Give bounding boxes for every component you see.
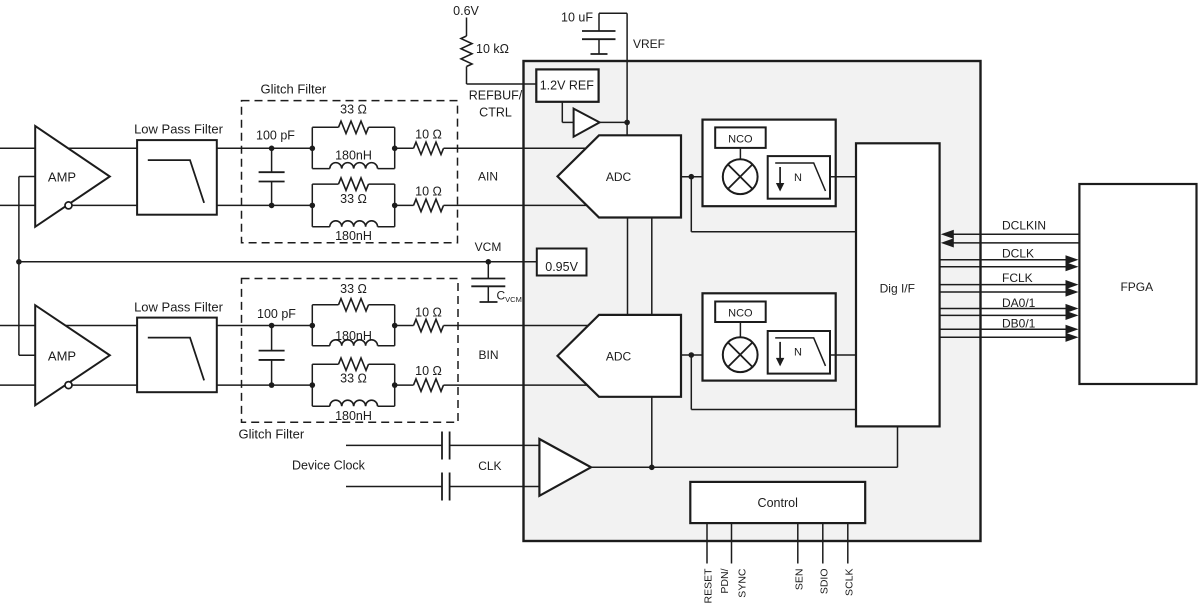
svg-text:33 Ω: 33 Ω [340,372,367,386]
resistor A-bottom 10ohm [414,199,444,211]
wire DDC B output [830,354,856,356]
low pass filter 2 box [137,318,217,393]
wire device clock bottom [346,486,442,488]
wire A-top RL loop left leg [311,127,313,168]
svg-text:DCLKIN: DCLKIN [1002,219,1046,233]
node A-bottom right [392,203,398,209]
svg-text:REFBUF/: REFBUF/ [469,89,523,103]
svg-text:180nH: 180nH [335,329,372,343]
wire RESET pin [706,523,708,563]
capacitor 100pF A [271,148,273,172]
capacitor clock coupling top [441,432,443,460]
wire 10uF to VREF line [599,12,627,14]
op-amp AMP1 [35,126,110,227]
decimation filter A down-arrow [779,167,781,184]
svg-text:Low Pass Filter: Low Pass Filter [134,122,224,137]
resistor B-top 33ohm [339,299,369,311]
inductor B-bottom 180nH [330,400,378,406]
wire DA0/1 pair [940,308,1067,310]
wire SDIO pin [822,523,824,563]
resistor B-top 10ohm [414,319,444,331]
wire B-bottom RL top leads [312,363,338,365]
resistor A-top 33ohm [339,121,369,133]
NCO A box [715,127,766,147]
ADC chip body (shaded) [524,61,981,541]
node B cap bottom [269,382,275,388]
svg-text:10 Ω: 10 Ω [415,184,442,198]
node VCM cap tap [486,259,492,265]
low pass filter 1 box [137,140,217,215]
wire clock below ADC2 [651,397,653,468]
wire B-bottom RL loop right leg [394,364,396,406]
ground 10uF [591,53,608,55]
wire SEN pin [797,523,799,563]
svg-text:BIN: BIN [478,348,498,362]
wire buffer output [600,121,628,123]
node B-top right [392,323,398,329]
svg-text:Dig I/F: Dig I/F [880,282,915,296]
Dig I/F box [856,143,940,426]
wire resistor to REFBUF pin [466,67,468,85]
capacitor 10uF [598,13,600,31]
svg-text:180nH: 180nH [335,149,372,163]
resistor A-bottom 33ohm [339,178,369,190]
wire PDN/SYNC pin [731,523,733,563]
svg-text:RESET: RESET [703,568,715,604]
svg-text:NCO: NCO [728,133,753,145]
wire 1.2V REF to buffer [561,102,563,123]
svg-text:Low Pass Filter: Low Pass Filter [134,300,224,315]
svg-text:PDN/: PDN/ [719,568,731,593]
capacitor clock coupling bottom [441,473,443,501]
svg-text:FPGA: FPGA [1120,280,1153,294]
svg-text:Device Clock: Device Clock [292,459,366,473]
svg-text:FCLK: FCLK [1002,271,1033,285]
svg-text:CLK: CLK [478,459,501,473]
op-amp reference buffer [574,109,600,137]
svg-text:33 Ω: 33 Ω [340,192,367,206]
wire AIN- rail [0,204,312,206]
wire DDC A bypass [690,177,692,232]
svg-text:Glitch Filter: Glitch Filter [261,82,327,97]
svg-text:33 Ω: 33 Ω [340,103,367,117]
svg-text:Control: Control [758,496,798,510]
Control box [690,482,865,523]
svg-text:N: N [794,172,802,184]
inductor A-top 180nH [330,163,378,169]
0.95V reference box [537,249,587,276]
wire SCLK pin [847,523,849,563]
decimation filter B box [768,331,830,374]
svg-text:100 pF: 100 pF [256,129,295,143]
decimation filter A slope [775,163,825,191]
svg-text:0.6V: 0.6V [453,4,479,18]
node VCM tee [16,259,22,265]
resistor A-top 10ohm [414,142,444,154]
wire VREF vertical [626,13,628,135]
glitch filter A dashed box [242,101,458,243]
wire NCO B to mixer [739,322,741,337]
wire AIN+ rail [0,147,312,149]
svg-text:180nH: 180nH [335,229,372,243]
svg-text:10 uF: 10 uF [561,11,593,25]
decimation filter B slope [775,338,825,366]
wire A-bottom RL loop right leg [394,184,396,227]
node A cap bottom [269,203,275,209]
1.2V REF box [536,69,598,101]
wire B-top RL loop left leg [311,305,313,346]
node A-bottom left [310,203,316,209]
svg-text:VREF: VREF [633,37,665,51]
node A-top right [392,146,398,152]
node ADC2 output junction [689,352,695,358]
svg-text:AMP: AMP [48,348,76,363]
low pass filter 2 response curve [148,338,204,381]
svg-text:AMP: AMP [48,170,76,185]
node clock junction [649,465,655,471]
svg-text:SYNC: SYNC [736,568,748,598]
AMP1 inverting output bubble [65,202,72,209]
svg-text:DA0/1: DA0/1 [1002,296,1036,310]
capacitor CVCM [487,262,489,279]
svg-text:ADC: ADC [606,170,632,184]
ADC U1 (channel A) [558,135,682,217]
wire BIN- rail [0,384,312,386]
resistor B-bottom 33ohm [339,358,369,370]
node A cap top [269,146,275,152]
wire clock between ADCs [651,218,653,315]
low pass filter 1 response curve [148,160,204,203]
svg-text:180nH: 180nH [335,409,372,423]
resistor B-bottom 10ohm [414,379,444,391]
AMP2 inverting output bubble [65,382,72,389]
node A-top left [310,146,316,152]
op-amp AMP2 [35,305,110,405]
ground CVCM [480,301,498,303]
wire FCLK pair [940,284,1067,286]
NCO B box [715,302,766,323]
svg-text:VCM: VCM [475,240,502,254]
svg-text:CTRL: CTRL [479,106,512,120]
wire 0.6V to resistor [466,18,468,37]
DDC A outer box [703,120,836,207]
wire ADC2 output [681,354,703,356]
node ADC1 output junction [689,174,695,180]
node VREF junction [624,120,630,126]
svg-text:10 Ω: 10 Ω [415,364,442,378]
node B-top left [310,323,316,329]
wire DDC A output [830,176,856,178]
node B-bottom left [310,382,316,388]
glitch filter B dashed box [242,279,459,423]
wire device clock top [346,444,442,446]
svg-text:NCO: NCO [728,307,753,319]
wire A-top RL loop right leg [394,127,396,168]
mixer A (multiplier) [723,159,758,194]
wire B-top RL top leads [312,304,338,306]
svg-text:SEN: SEN [793,569,805,591]
wire A-top RL bottom leads [312,168,330,170]
wire B-bottom RL bottom leads [312,405,330,407]
wire A-bottom RL top leads [312,183,338,185]
svg-text:SDIO: SDIO [818,569,830,595]
node B-bottom right [392,382,398,388]
wire DDC B bypass [690,355,692,410]
svg-text:DCLK: DCLK [1002,247,1034,261]
wire B-bottom RL loop left leg [311,364,313,406]
wire DB0/1 pair [940,328,1067,330]
wire BIN+ rail [0,325,312,327]
inductor A-bottom 180nH [330,221,378,227]
DDC B outer box [703,293,836,380]
wire NCO A to mixer [739,148,741,159]
wire clock riser to Dig I/F [897,426,899,467]
svg-text:33 Ω: 33 Ω [340,282,367,296]
svg-text:AIN: AIN [478,170,498,184]
svg-text:100 pF: 100 pF [257,307,296,321]
FPGA box [1079,184,1196,384]
wire B-top RL bottom leads [312,345,330,347]
mixer B (multiplier) [723,337,758,372]
svg-text:10 Ω: 10 Ω [415,127,442,141]
svg-text:ADC: ADC [606,350,632,364]
wire ADC1 output [681,176,703,178]
wire DCLKIN pair [952,233,1079,235]
svg-text:10 kΩ: 10 kΩ [476,42,509,56]
wire clock buffer output [591,466,898,468]
resistor 10k [461,36,472,66]
svg-text:Glitch Filter: Glitch Filter [239,427,305,442]
svg-text:1.2V REF: 1.2V REF [540,79,595,93]
wire A-bottom RL loop left leg [311,184,313,227]
wire A-top RL top leads [312,126,338,128]
svg-text:0.95V: 0.95V [545,260,578,274]
ADC U2 (channel B) [558,315,682,397]
svg-text:DB0/1: DB0/1 [1002,317,1036,331]
node B cap top [269,323,275,329]
inductor B-top 180nH [330,340,378,346]
decimation filter B down-arrow [779,342,781,359]
svg-text:10 Ω: 10 Ω [415,306,442,320]
wire A-bottom RL bottom leads [312,226,330,228]
wire VCM horizontal [19,261,537,263]
decimation filter A box [768,156,830,199]
clock buffer [539,439,591,496]
svg-text:N: N [794,347,802,359]
wire B-top RL loop right leg [394,305,396,346]
svg-text:SCLK: SCLK [843,569,855,596]
wire VCM feedback vertical [18,177,20,356]
svg-text:CVCM: CVCM [497,289,522,305]
wire DCLK pair [940,259,1067,261]
capacitor 100pF B [271,326,273,351]
wire VREF between ADCs [627,218,629,315]
